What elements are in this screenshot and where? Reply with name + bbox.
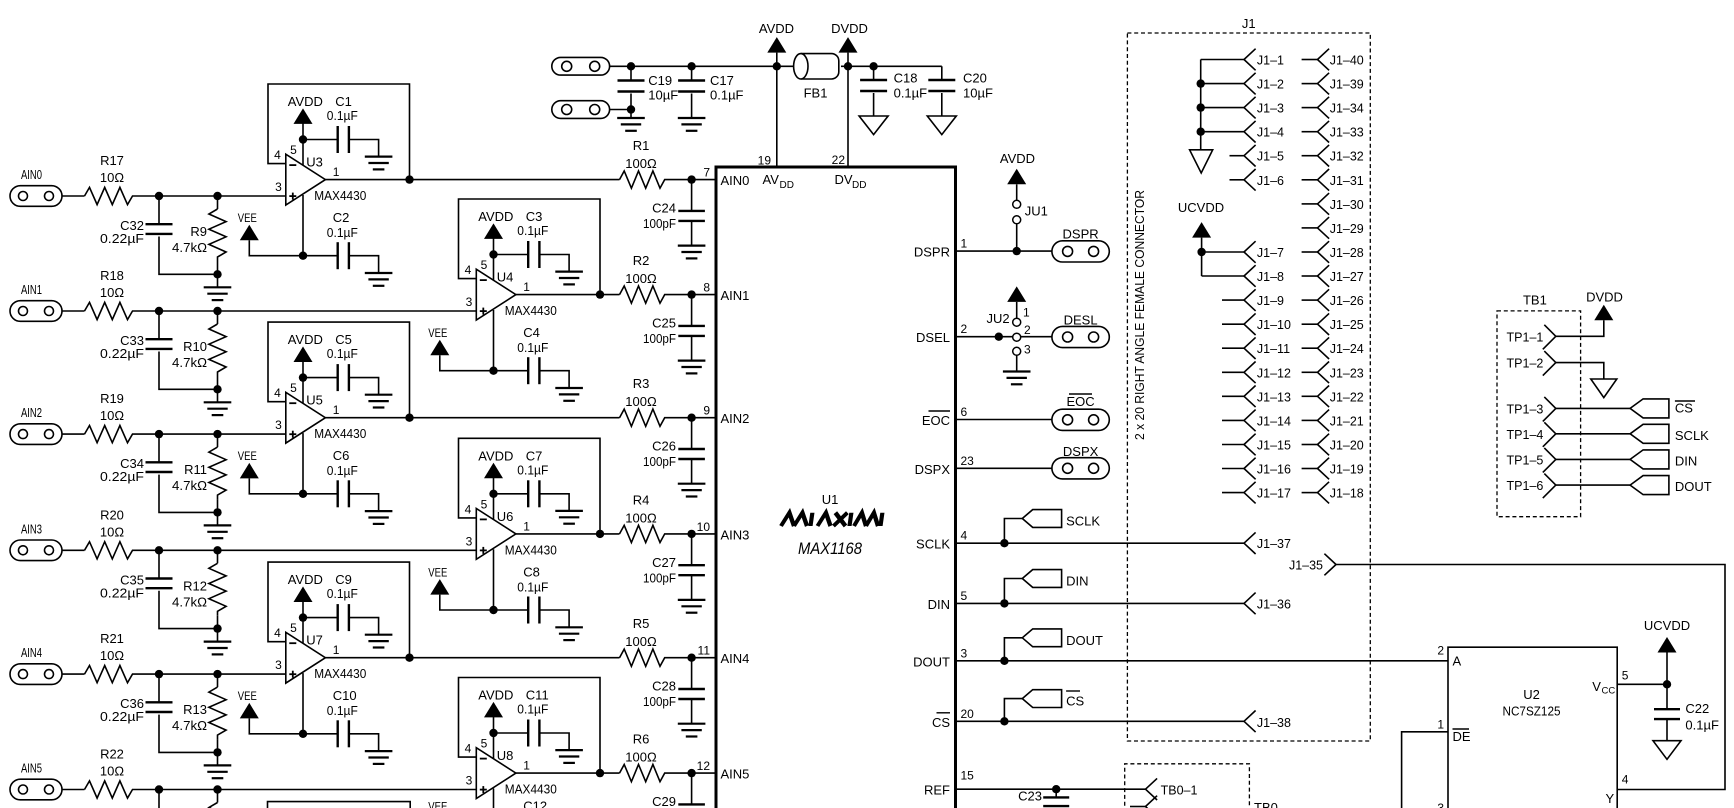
svg-text:5: 5 xyxy=(481,497,488,511)
svg-text:R1: R1 xyxy=(633,138,650,153)
svg-text:6: 6 xyxy=(961,405,968,419)
svg-text:TP1–5: TP1–5 xyxy=(1507,453,1544,467)
svg-text:1: 1 xyxy=(523,759,530,773)
svg-text:10Ω: 10Ω xyxy=(100,285,124,300)
svg-text:0.22µF: 0.22µF xyxy=(100,469,144,484)
svg-text:TB0: TB0 xyxy=(1254,800,1278,808)
svg-text:22: 22 xyxy=(832,153,846,167)
svg-text:11: 11 xyxy=(698,644,711,658)
svg-text:DV: DV xyxy=(835,172,853,187)
svg-text:100Ω: 100Ω xyxy=(625,394,657,409)
svg-text:AIN0: AIN0 xyxy=(721,173,750,188)
svg-text:Y: Y xyxy=(1606,791,1615,806)
svg-text:C26: C26 xyxy=(652,439,676,454)
svg-text:9: 9 xyxy=(703,404,710,418)
svg-text:1: 1 xyxy=(333,165,340,179)
svg-text:J1–14: J1–14 xyxy=(1257,414,1291,428)
svg-text:SCLK: SCLK xyxy=(1066,514,1100,529)
svg-text:3: 3 xyxy=(275,658,282,672)
svg-text:C5: C5 xyxy=(335,332,352,347)
svg-text:C23: C23 xyxy=(1018,789,1042,804)
svg-text:4: 4 xyxy=(274,626,281,640)
svg-text:4.7kΩ: 4.7kΩ xyxy=(172,240,207,255)
svg-text:JU1: JU1 xyxy=(1025,204,1048,219)
svg-text:U3: U3 xyxy=(306,155,323,170)
svg-text:AVDD: AVDD xyxy=(288,572,323,587)
svg-text:C1: C1 xyxy=(335,94,352,109)
svg-text:SCLK: SCLK xyxy=(1675,428,1709,443)
svg-text:4: 4 xyxy=(274,386,281,400)
svg-text:J1–31: J1–31 xyxy=(1330,174,1364,188)
svg-text:EOC: EOC xyxy=(1067,394,1095,409)
svg-text:10Ω: 10Ω xyxy=(100,408,124,423)
svg-text:J1–13: J1–13 xyxy=(1257,390,1291,404)
svg-text:4: 4 xyxy=(465,263,472,277)
svg-text:AIN1: AIN1 xyxy=(721,288,750,303)
svg-text:0.1µF: 0.1µF xyxy=(327,463,358,478)
svg-text:10µF: 10µF xyxy=(648,88,678,103)
svg-text:MAX4430: MAX4430 xyxy=(314,188,366,203)
svg-text:J1–3: J1–3 xyxy=(1257,102,1284,116)
svg-text:100pF: 100pF xyxy=(643,454,676,469)
svg-text:J1–40: J1–40 xyxy=(1330,54,1364,68)
svg-text:0.1µF: 0.1µF xyxy=(517,702,548,717)
svg-text:AVDD: AVDD xyxy=(478,448,513,463)
svg-text:MAX4430: MAX4430 xyxy=(314,666,366,681)
svg-text:MAX1168: MAX1168 xyxy=(798,539,862,558)
svg-text:100Ω: 100Ω xyxy=(625,510,657,525)
svg-text:AVDD: AVDD xyxy=(478,688,513,703)
svg-text:MAX4430: MAX4430 xyxy=(505,782,557,797)
svg-text:0.1µF: 0.1µF xyxy=(1685,718,1719,733)
svg-text:4.7kΩ: 4.7kΩ xyxy=(172,478,207,493)
svg-text:C25: C25 xyxy=(652,316,676,331)
svg-text:AVDD: AVDD xyxy=(288,94,323,109)
svg-text:10Ω: 10Ω xyxy=(100,764,124,779)
svg-text:VEE: VEE xyxy=(238,689,257,703)
svg-text:15: 15 xyxy=(961,769,975,783)
svg-text:C8: C8 xyxy=(523,564,540,579)
svg-text:J1–9: J1–9 xyxy=(1257,294,1284,308)
svg-text:R11: R11 xyxy=(184,462,207,477)
svg-text:1: 1 xyxy=(333,403,340,417)
svg-text:MAX4430: MAX4430 xyxy=(505,303,557,318)
svg-text:C22: C22 xyxy=(1685,701,1709,716)
svg-text:100pF: 100pF xyxy=(643,216,676,231)
svg-text:0.22µF: 0.22µF xyxy=(100,346,144,361)
svg-text:3: 3 xyxy=(275,418,282,432)
svg-text:0.1µF: 0.1µF xyxy=(327,586,358,601)
svg-text:TP1–3: TP1–3 xyxy=(1507,402,1544,416)
svg-text:U1: U1 xyxy=(822,492,839,507)
svg-text:J1–32: J1–32 xyxy=(1330,150,1364,164)
svg-text:C6: C6 xyxy=(333,448,350,463)
svg-text:10Ω: 10Ω xyxy=(100,648,124,663)
svg-text:VEE: VEE xyxy=(428,565,447,579)
svg-text:J1–25: J1–25 xyxy=(1330,318,1364,332)
svg-text:J1–16: J1–16 xyxy=(1257,463,1291,477)
svg-text:DESL: DESL xyxy=(1064,313,1098,328)
svg-text:DE: DE xyxy=(1453,729,1471,744)
svg-text:TP1–1: TP1–1 xyxy=(1507,330,1544,344)
svg-text:8: 8 xyxy=(703,281,710,295)
svg-text:0.22µF: 0.22µF xyxy=(100,231,144,246)
svg-text:J1–38: J1–38 xyxy=(1257,716,1291,730)
svg-text:C3: C3 xyxy=(526,209,543,224)
svg-text:4.7kΩ: 4.7kΩ xyxy=(172,718,207,733)
svg-text:7: 7 xyxy=(703,166,710,180)
svg-text:2 x 20 RIGHT ANGLE FEMALE CONN: 2 x 20 RIGHT ANGLE FEMALE CONNECTOR xyxy=(1133,190,1147,440)
svg-text:2: 2 xyxy=(1437,644,1444,658)
svg-text:R22: R22 xyxy=(100,747,124,762)
svg-text:AV: AV xyxy=(763,172,780,187)
svg-text:100Ω: 100Ω xyxy=(625,271,657,286)
svg-text:0.1µF: 0.1µF xyxy=(327,703,358,718)
svg-text:3: 3 xyxy=(275,180,282,194)
svg-text:0.1µF: 0.1µF xyxy=(710,88,744,103)
svg-text:TP1–4: TP1–4 xyxy=(1507,428,1544,442)
svg-text:CC: CC xyxy=(1602,686,1616,697)
svg-text:0.22µF: 0.22µF xyxy=(100,585,144,600)
svg-text:C4: C4 xyxy=(523,325,540,340)
svg-text:100Ω: 100Ω xyxy=(625,634,657,649)
svg-text:0.22µF: 0.22µF xyxy=(100,709,144,724)
svg-text:VEE: VEE xyxy=(428,326,447,340)
svg-text:J1–2: J1–2 xyxy=(1257,78,1284,92)
svg-text:J1–15: J1–15 xyxy=(1257,439,1291,453)
svg-text:10µF: 10µF xyxy=(963,86,993,101)
svg-text:MAX4430: MAX4430 xyxy=(505,542,557,557)
svg-text:5: 5 xyxy=(481,737,488,751)
svg-text:U5: U5 xyxy=(306,393,323,408)
svg-text:10Ω: 10Ω xyxy=(100,170,124,185)
svg-text:J1–23: J1–23 xyxy=(1330,366,1364,380)
svg-text:J1–20: J1–20 xyxy=(1330,439,1364,453)
svg-text:23: 23 xyxy=(961,454,975,468)
svg-text:J1–27: J1–27 xyxy=(1330,270,1364,284)
svg-text:J1–1: J1–1 xyxy=(1257,54,1284,68)
svg-text:C10: C10 xyxy=(333,688,357,703)
svg-text:0.1µF: 0.1µF xyxy=(517,223,548,238)
svg-text:5: 5 xyxy=(290,621,297,635)
svg-text:J1–30: J1–30 xyxy=(1330,198,1364,212)
svg-text:100Ω: 100Ω xyxy=(625,750,657,765)
svg-text:4.7kΩ: 4.7kΩ xyxy=(172,594,207,609)
svg-text:DSPR: DSPR xyxy=(914,245,950,260)
svg-text:J1–12: J1–12 xyxy=(1257,366,1291,380)
svg-text:R4: R4 xyxy=(633,492,650,507)
svg-text:DD: DD xyxy=(780,180,794,191)
svg-text:JU2: JU2 xyxy=(986,311,1009,326)
svg-text:C12: C12 xyxy=(523,799,547,808)
svg-text:C7: C7 xyxy=(526,448,543,463)
svg-text:C28: C28 xyxy=(652,679,676,694)
svg-text:U2: U2 xyxy=(1523,687,1540,702)
svg-text:R6: R6 xyxy=(633,732,650,747)
svg-text:3: 3 xyxy=(466,774,473,788)
svg-text:1: 1 xyxy=(523,519,530,533)
svg-text:AIN5: AIN5 xyxy=(21,761,42,776)
svg-text:VEE: VEE xyxy=(238,211,257,225)
svg-text:4: 4 xyxy=(961,529,968,543)
svg-text:5: 5 xyxy=(1622,669,1629,683)
svg-text:C24: C24 xyxy=(652,201,676,216)
svg-text:FB1: FB1 xyxy=(804,86,828,101)
svg-text:TP1–2: TP1–2 xyxy=(1507,357,1544,371)
svg-text:DD: DD xyxy=(852,180,866,191)
svg-text:DSEL: DSEL xyxy=(916,330,950,345)
svg-text:AIN1: AIN1 xyxy=(21,282,42,297)
svg-text:J1–26: J1–26 xyxy=(1330,294,1364,308)
svg-text:1: 1 xyxy=(1023,306,1030,320)
svg-text:TB0–1: TB0–1 xyxy=(1161,784,1198,798)
svg-text:20: 20 xyxy=(961,707,975,721)
svg-text:5: 5 xyxy=(481,258,488,272)
svg-text:J1: J1 xyxy=(1242,16,1256,31)
svg-text:0.1µF: 0.1µF xyxy=(327,346,358,361)
svg-text:C17: C17 xyxy=(710,73,734,88)
svg-text:2: 2 xyxy=(961,322,968,336)
svg-text:1: 1 xyxy=(1437,717,1444,731)
svg-text:R3: R3 xyxy=(633,376,650,391)
svg-text:0.1µF: 0.1µF xyxy=(894,86,928,101)
svg-text:0.1µF: 0.1µF xyxy=(517,462,548,477)
svg-text:VEE: VEE xyxy=(428,800,447,808)
svg-text:DSPX: DSPX xyxy=(1063,444,1099,459)
svg-text:C29: C29 xyxy=(652,794,676,808)
svg-text:12: 12 xyxy=(697,759,711,773)
svg-text:DOUT: DOUT xyxy=(1066,633,1103,648)
svg-text:R10: R10 xyxy=(183,339,207,354)
svg-text:J1–4: J1–4 xyxy=(1257,126,1284,140)
svg-text:AIN4: AIN4 xyxy=(721,651,750,666)
svg-text:J1–5: J1–5 xyxy=(1257,150,1284,164)
svg-text:3: 3 xyxy=(466,534,473,548)
svg-text:U4: U4 xyxy=(497,270,514,285)
svg-text:VEE: VEE xyxy=(238,449,257,463)
svg-text:DSPR: DSPR xyxy=(1063,227,1099,242)
svg-text:J1–19: J1–19 xyxy=(1330,463,1364,477)
svg-text:J1–8: J1–8 xyxy=(1257,270,1284,284)
svg-text:AVDD: AVDD xyxy=(288,332,323,347)
svg-text:EOC: EOC xyxy=(922,413,950,428)
svg-text:J1–39: J1–39 xyxy=(1330,78,1364,92)
svg-text:5: 5 xyxy=(290,143,297,157)
svg-text:1: 1 xyxy=(523,280,530,294)
svg-text:DIN: DIN xyxy=(1675,453,1697,468)
svg-text:U7: U7 xyxy=(306,633,323,648)
svg-text:4: 4 xyxy=(465,502,472,516)
svg-text:MAX4430: MAX4430 xyxy=(314,426,366,441)
svg-text:R19: R19 xyxy=(100,391,124,406)
svg-text:R2: R2 xyxy=(633,253,650,268)
svg-text:4: 4 xyxy=(274,148,281,162)
svg-text:R9: R9 xyxy=(190,224,207,239)
svg-text:C19: C19 xyxy=(648,73,672,88)
svg-text:3: 3 xyxy=(466,295,473,309)
svg-text:J1–37: J1–37 xyxy=(1257,537,1291,551)
svg-text:5: 5 xyxy=(290,381,297,395)
svg-text:0.1µF: 0.1µF xyxy=(517,340,548,355)
svg-text:J1–33: J1–33 xyxy=(1330,126,1364,140)
svg-text:1: 1 xyxy=(961,237,968,251)
svg-text:DSPX: DSPX xyxy=(915,462,951,477)
svg-text:J1–22: J1–22 xyxy=(1330,390,1364,404)
svg-text:100Ω: 100Ω xyxy=(625,156,657,171)
svg-text:R21: R21 xyxy=(100,631,124,646)
svg-text:U6: U6 xyxy=(497,509,514,524)
svg-text:AIN3: AIN3 xyxy=(21,521,42,536)
svg-text:J1–28: J1–28 xyxy=(1330,246,1364,260)
svg-text:AVDD: AVDD xyxy=(759,21,794,36)
svg-text:NC7SZ125: NC7SZ125 xyxy=(1503,704,1561,719)
svg-text:DOUT: DOUT xyxy=(1675,479,1712,494)
svg-text:J1–29: J1–29 xyxy=(1330,222,1364,236)
svg-text:C18: C18 xyxy=(894,71,918,86)
svg-text:V: V xyxy=(1592,679,1601,694)
svg-text:AVDD: AVDD xyxy=(1000,151,1035,166)
svg-text:AIN3: AIN3 xyxy=(721,527,750,542)
svg-text:UCVDD: UCVDD xyxy=(1178,200,1224,215)
svg-text:3: 3 xyxy=(1437,801,1444,808)
svg-text:100pF: 100pF xyxy=(643,331,676,346)
svg-text:UCVDD: UCVDD xyxy=(1644,618,1690,633)
svg-text:A: A xyxy=(1453,654,1462,669)
svg-text:100pF: 100pF xyxy=(643,694,676,709)
svg-text:3: 3 xyxy=(961,646,968,660)
svg-text:0.1µF: 0.1µF xyxy=(327,108,358,123)
svg-text:R20: R20 xyxy=(100,507,124,522)
svg-text:0.1µF: 0.1µF xyxy=(327,225,358,240)
svg-text:J1–6: J1–6 xyxy=(1257,174,1284,188)
svg-text:AIN5: AIN5 xyxy=(721,767,750,782)
svg-text:C11: C11 xyxy=(526,688,549,703)
svg-text:C27: C27 xyxy=(652,555,676,570)
svg-text:3: 3 xyxy=(1024,343,1031,357)
svg-text:R13: R13 xyxy=(183,702,207,717)
svg-text:R5: R5 xyxy=(633,616,650,631)
svg-text:J1–11: J1–11 xyxy=(1257,342,1290,356)
svg-text:AIN4: AIN4 xyxy=(21,645,42,660)
svg-text:DVDD: DVDD xyxy=(831,21,868,36)
svg-text:5: 5 xyxy=(961,589,968,603)
svg-text:TB1: TB1 xyxy=(1523,293,1547,308)
svg-text:R17: R17 xyxy=(100,153,124,168)
svg-text:TP1–6: TP1–6 xyxy=(1507,479,1544,493)
svg-text:AIN2: AIN2 xyxy=(21,405,42,420)
svg-text:J1–34: J1–34 xyxy=(1330,102,1364,116)
svg-text:AIN2: AIN2 xyxy=(721,411,750,426)
svg-text:4: 4 xyxy=(1622,773,1629,787)
svg-text:J1–36: J1–36 xyxy=(1257,597,1291,611)
svg-text:C2: C2 xyxy=(333,210,350,225)
svg-text:J1–18: J1–18 xyxy=(1330,487,1364,501)
svg-text:19: 19 xyxy=(758,154,772,168)
svg-text:J1–10: J1–10 xyxy=(1257,318,1291,332)
svg-text:DIN: DIN xyxy=(928,597,950,612)
svg-text:J1–17: J1–17 xyxy=(1257,487,1291,501)
svg-text:SCLK: SCLK xyxy=(916,537,950,552)
svg-text:U8: U8 xyxy=(497,748,514,763)
svg-text:J1–35: J1–35 xyxy=(1289,559,1323,573)
svg-text:J1–7: J1–7 xyxy=(1257,246,1284,260)
svg-text:CS: CS xyxy=(1066,694,1084,709)
svg-text:10: 10 xyxy=(697,520,711,534)
svg-text:C20: C20 xyxy=(963,71,987,86)
svg-text:1: 1 xyxy=(333,643,340,657)
svg-text:DVDD: DVDD xyxy=(1586,290,1623,305)
svg-text:J1–24: J1–24 xyxy=(1330,342,1364,356)
svg-text:DOUT: DOUT xyxy=(913,654,950,669)
svg-text:R12: R12 xyxy=(183,578,207,593)
svg-text:CS: CS xyxy=(1675,400,1693,415)
svg-text:C9: C9 xyxy=(335,572,352,587)
svg-text:100pF: 100pF xyxy=(643,570,676,585)
svg-text:J1–21: J1–21 xyxy=(1330,414,1364,428)
svg-text:REF: REF xyxy=(924,783,950,798)
svg-text:4.7kΩ: 4.7kΩ xyxy=(172,355,207,370)
svg-text:DIN: DIN xyxy=(1066,574,1088,589)
svg-text:10Ω: 10Ω xyxy=(100,524,124,539)
svg-text:2: 2 xyxy=(1024,323,1031,337)
svg-text:0.1µF: 0.1µF xyxy=(517,579,548,594)
svg-text:AVDD: AVDD xyxy=(478,209,513,224)
svg-text:AIN0: AIN0 xyxy=(21,167,42,182)
svg-text:CS: CS xyxy=(932,715,950,730)
svg-text:4: 4 xyxy=(465,742,472,756)
svg-text:R18: R18 xyxy=(100,268,124,283)
